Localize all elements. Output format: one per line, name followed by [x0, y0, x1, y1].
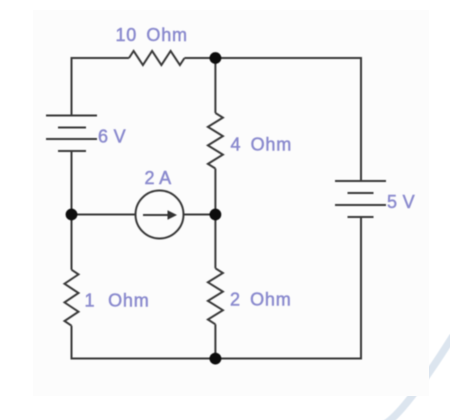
node dot middle: [210, 209, 222, 221]
svg-text:2 Ohm: 2 Ohm: [230, 289, 292, 309]
wire left node to current source: [72, 214, 136, 216]
battery V2 5V: [335, 181, 386, 217]
current source arrow: [143, 210, 177, 220]
resistor R 10 Ohm: [129, 51, 185, 65]
wire middle node to 2 Ohm resistor: [214, 215, 216, 269]
wire top-left corner to 10 Ohm resistor: [72, 58, 130, 116]
wire 1 Ohm resistor to bottom rail: [71, 326, 73, 360]
node dot top middle: [210, 52, 222, 64]
resistor R 2 Ohm: [208, 268, 223, 324]
wire top node down to 4 Ohm resistor: [214, 58, 216, 113]
svg-text:2 A: 2 A: [145, 168, 172, 188]
svg-text:5 V: 5 V: [387, 192, 415, 212]
node dot bottom middle: [210, 353, 222, 365]
wire 4 Ohm resistor to middle node: [214, 169, 216, 215]
wire left node to 1 Ohm resistor: [71, 215, 73, 270]
wire resistor to top-right corner: [185, 58, 362, 181]
node dot left middle: [66, 209, 78, 221]
wire 5V battery to bottom-right corner to bottom-left: [72, 217, 362, 359]
wire 6V battery to left node: [71, 151, 73, 215]
resistor R 4 Ohm: [208, 113, 223, 169]
resistor R 1 Ohm: [65, 270, 79, 326]
current source I1 2A circle: [136, 191, 184, 239]
battery V1 6V: [46, 116, 97, 152]
svg-text:4 Ohm: 4 Ohm: [231, 135, 293, 155]
decorative swoosh stripe (page watermark): [385, 336, 450, 420]
svg-text:6 V: 6 V: [98, 127, 126, 147]
wire 2 Ohm resistor to bottom node: [214, 324, 216, 358]
wire current source to middle node: [184, 214, 216, 216]
svg-text:1 Ohm: 1 Ohm: [85, 290, 150, 310]
svg-text:10 Ohm: 10 Ohm: [116, 25, 188, 45]
